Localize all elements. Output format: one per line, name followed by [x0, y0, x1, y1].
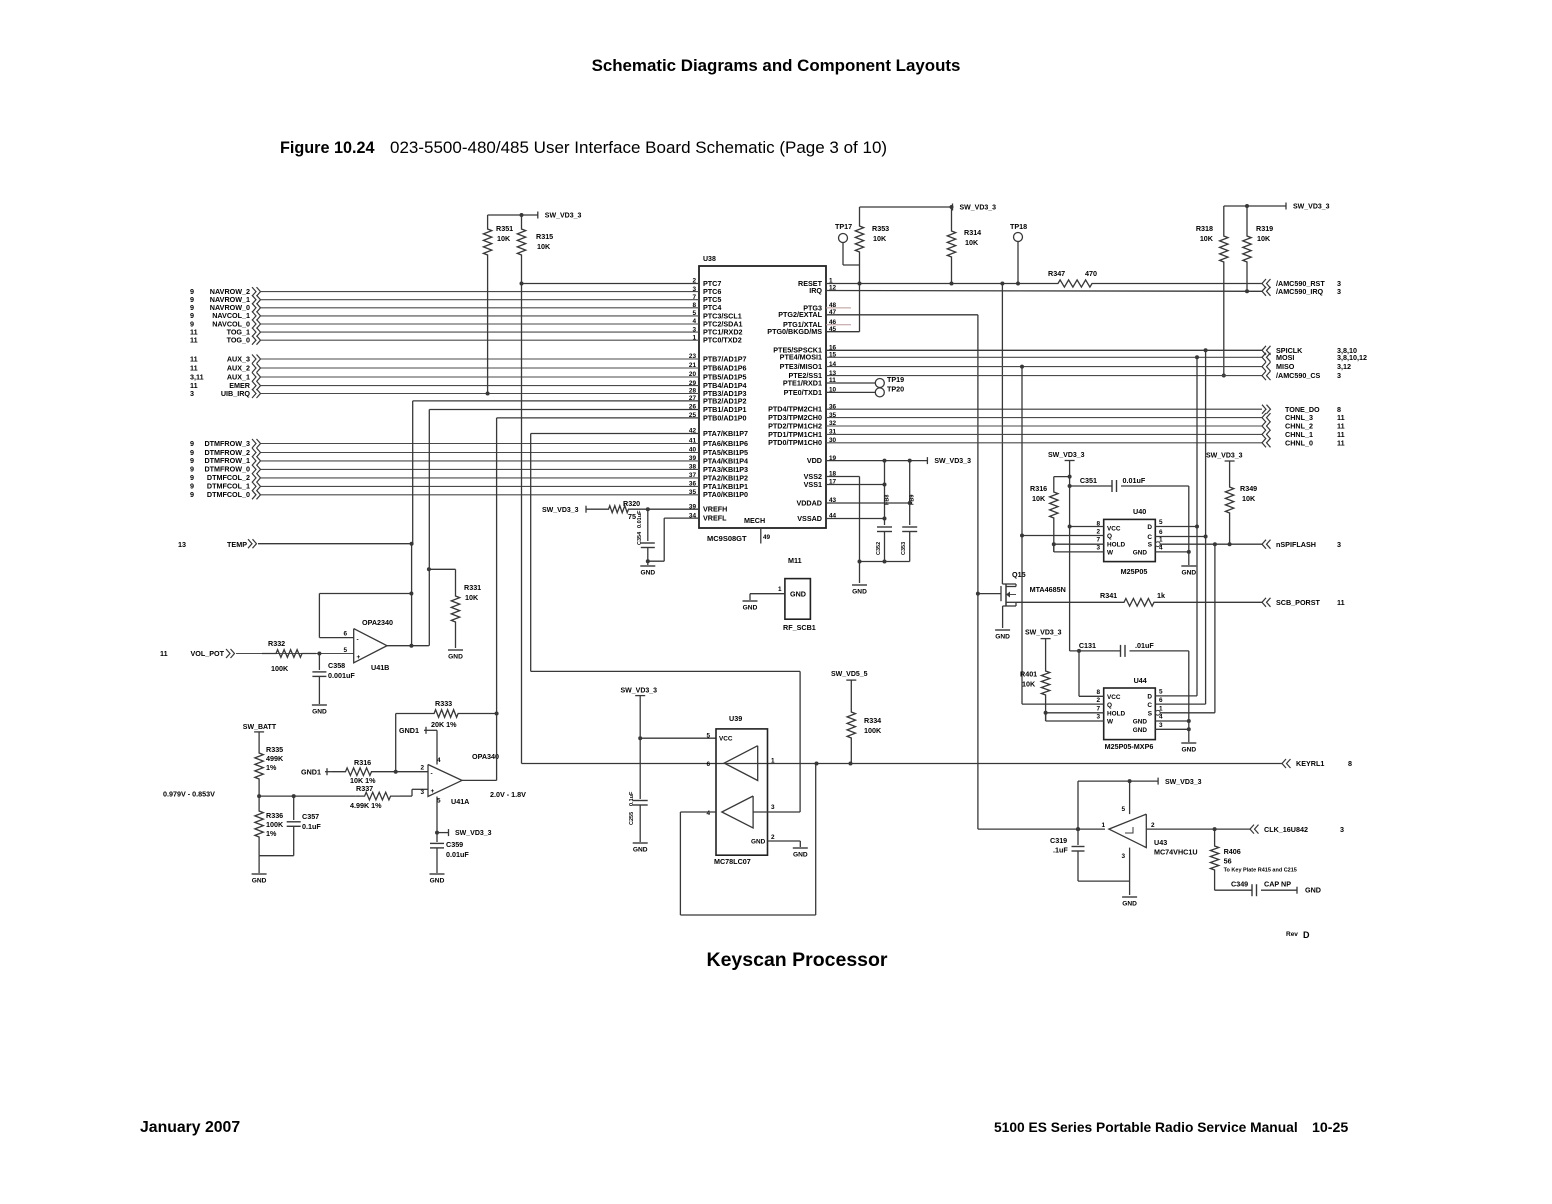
ground U43	[1122, 897, 1137, 908]
svg-text:PTE1/RXD1: PTE1/RXD1	[783, 378, 822, 387]
svg-text:TP17: TP17	[835, 222, 852, 231]
svg-text:1%: 1%	[266, 829, 277, 838]
svg-text:+: +	[357, 654, 361, 661]
svg-text:10K: 10K	[965, 238, 979, 247]
resistor R337	[350, 784, 400, 810]
ground C359	[430, 874, 445, 885]
footer left	[140, 1119, 240, 1136]
resistor R353	[855, 207, 889, 332]
wire U40 D / MOSI net	[1155, 357, 1199, 696]
power SW_VD3_3 U40	[1048, 452, 1085, 529]
off-page connector NAVCOL_1	[190, 311, 261, 320]
svg-text:0.001uF: 0.001uF	[328, 671, 355, 680]
off-page connector nSPIFLASH	[1262, 540, 1341, 549]
svg-text:GND: GND	[852, 589, 867, 596]
capacitor C131	[1070, 528, 1189, 696]
wire TOG_0	[261, 339, 699, 341]
svg-text:SW_VD3_3: SW_VD3_3	[455, 830, 492, 837]
svg-text:U39: U39	[729, 714, 742, 723]
svg-text:SW_BATT: SW_BATT	[243, 724, 277, 731]
svg-text:11: 11	[190, 354, 198, 363]
svg-text:SCB_PORST: SCB_PORST	[1276, 598, 1321, 607]
wire U44 C	[1155, 703, 1205, 705]
off-page connector NAVROW_1	[190, 295, 261, 304]
svg-text:3: 3	[190, 389, 194, 398]
svg-text:GND: GND	[640, 570, 655, 577]
svg-text:R335: R335	[266, 745, 283, 754]
svg-text:100K: 100K	[864, 726, 882, 735]
wire R351 to UIB_IRQ	[486, 258, 490, 396]
test point TP19	[826, 375, 904, 388]
off-page connector CHNL_0	[1262, 438, 1345, 447]
svg-text:Q: Q	[1107, 533, 1112, 540]
svg-text:1: 1	[1101, 822, 1105, 829]
svg-text:PTA0/KBI1P0: PTA0/KBI1P0	[703, 490, 748, 499]
svg-text:M25P05-MXP6: M25P05-MXP6	[1105, 742, 1154, 751]
wire R315 down / PTC7 net	[520, 258, 524, 764]
svg-text:GND: GND	[793, 852, 808, 859]
wire U39 gateB output	[753, 811, 800, 813]
svg-text:10K: 10K	[1200, 234, 1214, 243]
svg-text:VCC: VCC	[1107, 694, 1121, 701]
svg-text:RF_SCB1: RF_SCB1	[783, 623, 816, 632]
svg-text:PTC0/TXD2: PTC0/TXD2	[703, 336, 742, 345]
svg-text:R314: R314	[964, 228, 981, 237]
off-page connector TONE_DO	[1262, 405, 1341, 414]
wire CHNL_3	[826, 417, 1262, 419]
power flag SW_BATT	[243, 724, 277, 749]
svg-text:SW_VD3_3: SW_VD3_3	[1293, 204, 1330, 211]
wire RESET to Q15 drain	[1000, 282, 1004, 585]
resistor R316 pullup U40	[1030, 477, 1070, 552]
svg-text:0.1uF: 0.1uF	[629, 791, 635, 806]
svg-text:3: 3	[1337, 287, 1341, 296]
svg-text:2: 2	[1096, 529, 1100, 536]
svg-text:5: 5	[1159, 688, 1163, 695]
svg-text:TOG_0: TOG_0	[227, 336, 250, 345]
wire UIB_IRQ	[261, 393, 699, 395]
power flag SW_VD3_3 VDD	[927, 457, 971, 465]
resistor R314	[947, 207, 981, 286]
mcu left pin labels PTA	[689, 428, 748, 500]
mcu U38 box	[699, 256, 826, 543]
wire U44 GND	[1155, 651, 1191, 742]
wire NAVCOL_1	[261, 315, 699, 317]
ground battery divider	[252, 856, 267, 885]
svg-text:20K 1%: 20K 1%	[431, 720, 457, 729]
wire U44 D	[1155, 695, 1197, 697]
svg-text:SW_VD3_3: SW_VD3_3	[1165, 779, 1202, 786]
wire DTMFCOL_2	[261, 477, 699, 479]
svg-text:VSS1: VSS1	[804, 480, 822, 489]
svg-text:AUX_3: AUX_3	[227, 354, 250, 363]
svg-text:023-5500-480/485 User Interfac: 023-5500-480/485 User Interface Board Sc…	[390, 138, 887, 157]
mcu left pin labels PTC	[692, 278, 742, 345]
off-page connector DTMFCOL_1	[190, 482, 261, 491]
svg-text:PTG2/EXTAL: PTG2/EXTAL	[778, 310, 822, 319]
svg-text:0.01uF: 0.01uF	[446, 850, 469, 859]
svg-text:9: 9	[190, 490, 194, 499]
wire U41B feedback	[319, 592, 413, 638]
ground U40	[1181, 566, 1196, 577]
svg-text:10K: 10K	[1242, 494, 1256, 503]
wire U40 GND	[1155, 486, 1191, 565]
svg-text:C357: C357	[302, 812, 319, 821]
off-page connector NAVCOL_0	[190, 319, 261, 328]
resistor R316	[332, 758, 385, 785]
svg-text:10K: 10K	[1022, 680, 1036, 689]
svg-text:MC9S08GT: MC9S08GT	[707, 534, 747, 543]
wire AUX_2	[261, 367, 699, 369]
svg-text:MTA4685N: MTA4685N	[1030, 585, 1066, 594]
power rail SW_VD3_3 top middle	[860, 204, 997, 212]
resistor R320	[607, 499, 640, 521]
svg-text:10K: 10K	[1257, 234, 1271, 243]
off-page connector MISO	[1262, 362, 1351, 371]
svg-text:C: C	[1147, 702, 1152, 709]
wire U44 W	[1046, 713, 1104, 721]
svg-text:1: 1	[778, 586, 782, 593]
svg-text:4.99K 1%: 4.99K 1%	[350, 801, 382, 810]
svg-text:U38: U38	[703, 256, 716, 263]
wire PTG1 stub	[826, 324, 851, 326]
wire VREFL return	[646, 518, 699, 563]
svg-text:10K: 10K	[465, 593, 479, 602]
svg-text:GND: GND	[1305, 886, 1321, 895]
buffer U39 gate A	[724, 746, 758, 781]
wire TOG_1	[261, 331, 699, 333]
svg-text:6: 6	[343, 630, 347, 637]
ground C358	[312, 705, 327, 716]
ground U44	[1181, 743, 1196, 754]
svg-text:Keyscan Processor: Keyscan Processor	[706, 949, 887, 971]
wire SPICLK	[826, 348, 1262, 352]
off-page connector CHNL_2	[1262, 422, 1345, 431]
svg-text:C352: C352	[876, 542, 882, 555]
capacitor C358	[312, 654, 355, 705]
svg-text:3: 3	[1121, 853, 1125, 860]
wire NAVROW_2	[261, 291, 699, 293]
svg-text:GND: GND	[1181, 747, 1196, 754]
wire U44 Q	[1022, 703, 1104, 705]
off-page connector AMC590_IRQ	[1262, 287, 1341, 296]
ground Q15	[995, 630, 1010, 641]
wire DTMFROW_0	[261, 468, 699, 470]
svg-text:S: S	[1148, 711, 1153, 718]
svg-text:C359: C359	[446, 840, 463, 849]
capacitor C352	[876, 527, 892, 562]
svg-text:D: D	[1147, 524, 1152, 531]
svg-text:/AMC590_IRQ: /AMC590_IRQ	[1276, 287, 1324, 296]
svg-text:1: 1	[771, 758, 775, 765]
svg-text:GND: GND	[252, 878, 267, 885]
svg-text:R341: R341	[1100, 591, 1117, 600]
svg-text:January 2007: January 2007	[140, 1119, 240, 1136]
wire IRQ net	[826, 290, 1262, 293]
svg-text:U41B: U41B	[371, 663, 389, 672]
svg-text:VDDAD: VDDAD	[796, 498, 822, 507]
inverter U43	[1101, 781, 1197, 895]
svg-text:HOLD: HOLD	[1107, 542, 1125, 549]
svg-text:49: 49	[763, 534, 771, 541]
wire KEYRL1 main	[522, 762, 1283, 766]
svg-text:10-25: 10-25	[1312, 1120, 1348, 1136]
off-page connector CHNL_1	[1262, 430, 1345, 439]
svg-text:MC74VHC1U: MC74VHC1U	[1154, 848, 1198, 857]
svg-text:GND: GND	[995, 634, 1010, 641]
wire minus input U41A	[385, 770, 428, 774]
svg-text:GND: GND	[790, 590, 806, 599]
svg-text:PTG0/BKGD/MS: PTG0/BKGD/MS	[767, 327, 822, 336]
svg-text:5: 5	[1121, 806, 1125, 813]
svg-text:499K: 499K	[266, 754, 284, 763]
power SW_VD3_3 U39	[621, 688, 658, 741]
svg-text:Q15: Q15	[1012, 570, 1026, 579]
svg-text:C255: C255	[629, 812, 635, 825]
svg-text:2: 2	[771, 834, 775, 841]
capacitor C319	[1050, 781, 1130, 881]
svg-text:R406: R406	[1224, 847, 1241, 856]
svg-text:C319: C319	[1050, 836, 1067, 845]
svg-text:1k: 1k	[1157, 591, 1165, 600]
svg-text:11: 11	[190, 363, 198, 372]
svg-text:R337: R337	[356, 784, 373, 793]
svg-text:CAP NP: CAP NP	[1264, 880, 1291, 889]
resistor R349	[1206, 453, 1257, 545]
power rail SW_VD3_3 top left	[488, 212, 582, 220]
svg-text:KEYRL1: KEYRL1	[1296, 759, 1324, 768]
svg-text:GND: GND	[1122, 901, 1137, 908]
ground VSS	[852, 585, 867, 596]
svg-text:2: 2	[420, 765, 424, 772]
svg-text:S: S	[1148, 542, 1153, 549]
wire PTG2/EXTAL to clock	[826, 315, 1105, 829]
off-page connector MOSI	[1262, 353, 1367, 362]
schematic title Keyscan Processor	[706, 949, 887, 971]
svg-text:GND: GND	[751, 839, 766, 846]
buffer U39 gate B	[722, 796, 753, 828]
svg-text:GND: GND	[633, 847, 648, 854]
op-amp U41B	[343, 618, 393, 672]
svg-text:5100 ES Series Portable Radio: 5100 ES Series Portable Radio Service Ma…	[994, 1120, 1298, 1135]
wire U44 VCC	[1079, 695, 1104, 697]
svg-text:CLK_16U842: CLK_16U842	[1264, 825, 1308, 834]
svg-text:D: D	[1147, 694, 1152, 701]
svg-text:0.979V - 0.853V: 0.979V - 0.853V	[163, 790, 215, 799]
wire MOSI	[826, 355, 1262, 359]
off-page connector TEMP	[178, 539, 257, 549]
wire PTG0/BKGD to R353	[826, 331, 860, 333]
svg-text:2: 2	[1096, 697, 1100, 704]
label GND1 lower	[301, 768, 332, 777]
svg-text:M25P05: M25P05	[1121, 567, 1148, 576]
test point TP17	[835, 222, 860, 265]
wire U43 input	[1076, 827, 1080, 831]
svg-text:PTB6/AD1P6: PTB6/AD1P6	[703, 363, 747, 372]
wire U40 HOLD	[1054, 543, 1104, 545]
off-page connector DTMFROW_3	[190, 439, 261, 448]
label GND1 upper	[399, 726, 437, 765]
svg-text:R333: R333	[435, 699, 452, 708]
power flag SW_VD3_3 VREFH	[542, 506, 607, 514]
wire U40 S / nSPIFLASH	[1155, 542, 1262, 547]
wire VOL_POT	[236, 652, 354, 656]
svg-text:R319: R319	[1256, 224, 1273, 233]
svg-text:R318: R318	[1196, 224, 1213, 233]
svg-text:0.1uF: 0.1uF	[302, 822, 321, 831]
svg-text:R353: R353	[872, 224, 889, 233]
svg-text:SW_VD3_3: SW_VD3_3	[545, 213, 582, 220]
svg-text:10K: 10K	[1032, 494, 1046, 503]
resistor R341	[1016, 591, 1262, 606]
svg-text:VDD: VDD	[807, 456, 822, 465]
mcu pins VREFH VREFL MECH	[689, 503, 771, 543]
resistor R336	[255, 796, 284, 856]
svg-text:5: 5	[706, 733, 710, 740]
svg-text:D: D	[1303, 930, 1310, 940]
svg-text:HOLD: HOLD	[1107, 711, 1125, 718]
off-page connector DTMFROW_1	[190, 456, 261, 465]
svg-text:IRQ: IRQ	[809, 286, 822, 295]
svg-text:R336: R336	[266, 811, 283, 820]
svg-text:3: 3	[1337, 540, 1341, 549]
svg-text:C: C	[1147, 534, 1152, 541]
ground C255	[633, 843, 648, 854]
svg-text:10K: 10K	[497, 234, 511, 243]
module M11 RF_SCB1	[750, 556, 816, 632]
wire VREFH	[630, 507, 699, 511]
svg-text:U43: U43	[1154, 838, 1167, 847]
wire PTB2 to TEMP net	[410, 401, 699, 546]
wire NAVROW_0	[261, 307, 699, 309]
wire TEMP	[258, 543, 412, 545]
svg-text:To Key Plate R415 and C215: To Key Plate R415 and C215	[1224, 868, 1297, 874]
mcu right pin labels	[767, 278, 836, 523]
svg-text:R320: R320	[623, 499, 640, 508]
svg-text:3,8,10,12: 3,8,10,12	[1337, 353, 1367, 362]
resistor R315	[517, 215, 553, 258]
capacitor C357	[259, 796, 321, 856]
wire PTB1 down	[427, 410, 699, 646]
svg-text:CHNL_0: CHNL_0	[1285, 438, 1313, 447]
svg-text:DTMFCOL_0: DTMFCOL_0	[207, 490, 250, 499]
capacitor C255	[629, 738, 648, 842]
svg-text:3: 3	[1337, 371, 1341, 380]
wire U43 output	[1146, 827, 1250, 831]
svg-text:PTE4/MOSI1: PTE4/MOSI1	[780, 353, 822, 362]
svg-text:0.01uF: 0.01uF	[1123, 476, 1146, 485]
svg-text:DTMFROW_3: DTMFROW_3	[204, 439, 250, 448]
svg-text:C354: C354	[637, 531, 643, 545]
off-page connector CHNL_3	[1262, 413, 1345, 422]
off-page connector TOG_0	[190, 336, 261, 345]
wire TEMP vertical	[411, 544, 413, 646]
svg-text:0.01uF: 0.01uF	[637, 510, 643, 528]
svg-text:C351: C351	[1080, 476, 1097, 485]
resistor R351	[483, 215, 513, 258]
svg-text:AUX_2: AUX_2	[227, 363, 250, 372]
wire EMER	[261, 385, 699, 387]
power SW_VD3_3 U43	[1128, 778, 1202, 786]
svg-text:11: 11	[1337, 598, 1345, 607]
svg-text:W: W	[1107, 719, 1114, 726]
wire MISO	[826, 365, 1262, 369]
off-page connector NAVROW_0	[190, 303, 261, 312]
svg-text:GND: GND	[1133, 727, 1148, 734]
wire TONE_DO	[826, 408, 1262, 410]
off-page connector AMC590_RST	[1262, 279, 1341, 288]
svg-text:TP18: TP18	[1010, 222, 1027, 231]
svg-text:7: 7	[1096, 706, 1100, 713]
svg-text:SW_VD3_3: SW_VD3_3	[1206, 453, 1243, 460]
wire U41B top input	[319, 637, 353, 639]
svg-text:R315: R315	[536, 232, 553, 241]
resistor R319	[1243, 206, 1273, 293]
svg-text:9: 9	[190, 439, 194, 448]
svg-text:R316: R316	[1030, 484, 1047, 493]
svg-text:.01uF: .01uF	[1135, 641, 1154, 650]
svg-text:3,12: 3,12	[1337, 362, 1351, 371]
svg-text:75: 75	[628, 512, 636, 521]
off-page connector /AMC590_CS	[1262, 371, 1341, 380]
svg-text:100K: 100K	[271, 664, 289, 673]
svg-text:U41A: U41A	[451, 797, 469, 806]
svg-text:6: 6	[1159, 529, 1163, 536]
svg-text:C131: C131	[1079, 641, 1096, 650]
wire NAVCOL_0	[261, 323, 699, 325]
wire PTA7 to buffer	[531, 434, 800, 813]
wire U40 W	[1054, 544, 1104, 552]
wire U41B output	[387, 644, 429, 648]
svg-text:GND: GND	[1133, 719, 1148, 726]
svg-text:56: 56	[1224, 857, 1232, 866]
svg-text:SW_VD3_3: SW_VD3_3	[1025, 630, 1062, 637]
capacitor C359	[430, 833, 469, 873]
svg-text:8: 8	[1348, 759, 1352, 768]
svg-text:3: 3	[1096, 544, 1100, 551]
resistor R333	[396, 699, 499, 772]
svg-text:5: 5	[343, 647, 347, 654]
power rail SW_VD3_3 top right	[1224, 203, 1330, 211]
svg-text:PTD0/TPM1CH0: PTD0/TPM1CH0	[768, 438, 822, 447]
svg-text:R349: R349	[1240, 484, 1257, 493]
svg-text:Rev: Rev	[1286, 931, 1298, 938]
svg-text:U40: U40	[1133, 507, 1146, 516]
rev label	[1286, 930, 1310, 940]
wire U39 GND pin	[768, 841, 801, 847]
wire PTG3 stub	[826, 307, 851, 309]
ground U39	[793, 848, 808, 859]
off-page connector NAVROW_2	[190, 287, 261, 296]
svg-text:U44: U44	[1134, 676, 1147, 685]
wire DTMFROW_2	[261, 452, 699, 454]
wire CHNL_1	[826, 433, 1262, 435]
svg-text:SW_VD3_3: SW_VD3_3	[542, 507, 579, 514]
capacitor C353	[901, 527, 917, 562]
buffer U39 box	[706, 714, 775, 866]
svg-text:/AMC590_CS: /AMC590_CS	[1276, 371, 1321, 380]
wire AUX_1	[261, 376, 699, 378]
off-page connector SCB_PORST	[1262, 598, 1345, 607]
svg-text:R351: R351	[496, 224, 513, 233]
resistor R347	[1048, 269, 1097, 287]
resistor R318	[1196, 206, 1228, 378]
footer right	[994, 1120, 1348, 1136]
resistor R406	[1210, 829, 1296, 890]
off-page connector DTMFROW_2	[190, 448, 261, 457]
svg-text:MOSI: MOSI	[1276, 353, 1294, 362]
wire DTMFROW_1	[261, 460, 699, 462]
